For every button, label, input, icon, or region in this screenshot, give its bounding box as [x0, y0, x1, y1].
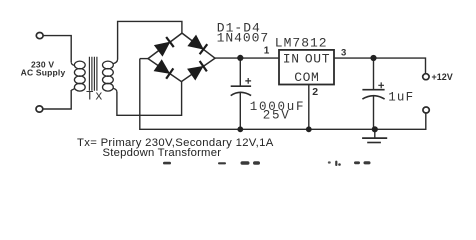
svg-text:Stepdown Transformer: Stepdown Transformer	[103, 147, 222, 159]
svg-text:1: 1	[264, 45, 270, 56]
svg-text:IN: IN	[283, 51, 300, 66]
svg-text:COM: COM	[294, 70, 319, 85]
svg-text:+12V: +12V	[432, 72, 453, 82]
svg-text:2: 2	[312, 86, 318, 98]
svg-text:OUT: OUT	[305, 51, 330, 66]
svg-text:LM7812: LM7812	[275, 36, 328, 51]
svg-text:Tx: Tx	[86, 90, 104, 104]
svg-text:3: 3	[341, 48, 346, 59]
svg-text:1N4007: 1N4007	[217, 31, 270, 46]
svg-text:1uF: 1uF	[388, 91, 414, 105]
svg-text:25V: 25V	[263, 109, 291, 123]
svg-text:AC Supply: AC Supply	[21, 68, 66, 78]
